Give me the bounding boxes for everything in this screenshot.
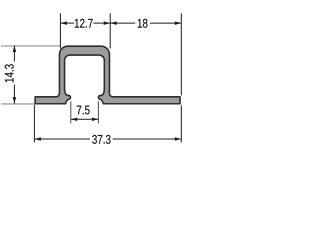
arrow left of 7.5 [71, 117, 78, 121]
extension line left of 37.3 [33, 105, 35, 143]
extension line left of 7.5 [70, 101, 72, 123]
extension line right of 7.5 [97, 101, 99, 123]
label 12.7 [75, 19, 93, 28]
extension line shared 12.7/18 [109, 13, 111, 48]
extension line left of 12.7 [59, 13, 61, 48]
label 37.3 [92, 135, 110, 144]
dimension line 14.3 segment a [13, 46, 15, 62]
hat profile cross-section [35, 46, 180, 104]
arrow right of 37.3 [175, 137, 182, 141]
arrow left of 12.7 [60, 21, 67, 25]
extension line right of 37.3 (lower) [180, 105, 182, 142]
label 18 [138, 19, 148, 28]
extension line bottom of 14.3 (gray) [1, 103, 34, 105]
label 7.5 [77, 106, 90, 115]
arrow bottom of 14.3 [13, 97, 17, 104]
label 14.3 (rotated) [5, 64, 14, 82]
dimension line 7.5 [71, 118, 99, 120]
arrow right of 12.7 [104, 21, 111, 25]
arrow right of 7.5 [92, 117, 99, 121]
dimension line 14.3 segment b [13, 85, 15, 104]
extension line right of 18 / 37.3 (upper) [180, 13, 182, 95]
dimension line 12.7 segment a [60, 22, 74, 24]
dimension line 18 segment b [150, 22, 181, 24]
dimension line 12.7/18 middle segment [93, 22, 135, 24]
arrow right of 18 [175, 21, 182, 25]
arrow left of 18 [110, 21, 117, 25]
arrow top of 14.3 [13, 46, 17, 53]
dimension line 37.3 segment b [113, 138, 182, 140]
arrow left of 37.3 [34, 137, 41, 141]
extension line top of 14.3 (gray) [1, 45, 61, 47]
dimension line 37.3 segment a [34, 138, 90, 140]
